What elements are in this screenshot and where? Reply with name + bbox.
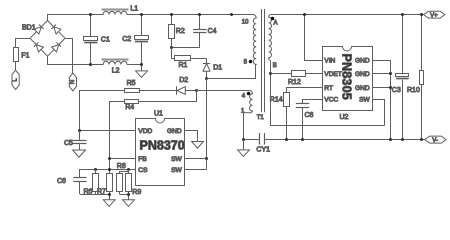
resistor R10 <box>420 15 424 140</box>
BD1 diode bottom-right <box>52 42 62 52</box>
wire: C6/R6 ground link <box>80 194 109 196</box>
node: GND pin3 junction <box>389 86 392 89</box>
svg-text:VCC: VCC <box>324 97 338 104</box>
BD1 diode bottom-left <box>34 42 44 52</box>
resistor R8 <box>117 171 129 195</box>
wire: bridge bottom vertex to negative rail <box>48 57 104 65</box>
wire: RT row to R14 <box>287 88 323 93</box>
BD1 diode top-right <box>51 25 61 35</box>
resistor R2 <box>169 15 175 48</box>
svg-text:4: 4 <box>242 94 246 100</box>
svg-text:B: B <box>273 63 277 69</box>
capacitor CY1 <box>244 133 287 145</box>
wire: VIN drop from top rail <box>305 15 323 61</box>
ground: R8 R9 ground symbol <box>123 200 135 207</box>
wire: V- rail <box>286 139 425 141</box>
capacitor C6 <box>73 178 86 195</box>
node: C1 top junction <box>89 13 92 16</box>
svg-text:SW: SW <box>171 167 182 174</box>
svg-text:V-: V- <box>432 138 438 144</box>
svg-text:GND: GND <box>355 85 370 92</box>
svg-text:U2: U2 <box>340 114 349 121</box>
node: pin B / R12 junction <box>269 72 272 75</box>
svg-text:R2: R2 <box>176 28 185 35</box>
svg-text:A: A <box>274 20 278 26</box>
ground: U1 GND symbol <box>192 142 204 149</box>
resistor R6 <box>93 169 99 194</box>
phase dot pin A <box>271 17 275 21</box>
wire: U1 VDD rail <box>79 130 136 132</box>
wire: fuse to L terminal <box>15 62 17 70</box>
svg-text:RT: RT <box>324 85 333 92</box>
svg-text:C4: C4 <box>208 28 217 35</box>
wire: R5 to D2 cathode <box>139 90 177 92</box>
wire: AC top bus from bridge to L1 <box>48 15 104 21</box>
wire: rail L2 to C2 ground node <box>127 64 142 66</box>
resistor R12 <box>271 71 322 77</box>
BD1 diode top-left <box>34 25 44 35</box>
svg-text:R1: R1 <box>179 62 188 69</box>
node: R10 top junction <box>420 13 423 16</box>
resistor R5 <box>125 89 140 93</box>
node: D2 anode junction <box>195 89 198 92</box>
resistor R4 <box>125 100 139 104</box>
wire: secondary output top rail to V+ <box>271 14 424 16</box>
wire: CS row to U1 <box>80 170 136 178</box>
svg-text:T1: T1 <box>257 115 265 121</box>
svg-text:VDD: VDD <box>138 128 152 135</box>
node: R6 top junction <box>94 168 97 171</box>
wire: switch node column to U1 SW pins <box>206 79 208 170</box>
svg-text:PN8370: PN8370 <box>140 139 185 153</box>
capacitor C5 <box>73 130 87 150</box>
terminal V- <box>425 136 446 144</box>
svg-text:1: 1 <box>241 109 245 115</box>
node: C1 bottom junction <box>89 63 92 66</box>
wire: bridge right vertex down to N terminal (crosses rail) <box>66 39 73 74</box>
node: CS column junction <box>108 168 111 171</box>
svg-text:C1: C1 <box>101 36 110 43</box>
svg-text:R9: R9 <box>132 189 141 196</box>
svg-text:D1: D1 <box>213 65 222 72</box>
wire: FB row to U1 <box>109 158 135 160</box>
node: top bus dot near pin 10 <box>230 13 233 16</box>
svg-text:C2: C2 <box>122 36 131 43</box>
node: snubber link junction <box>170 46 173 49</box>
node: D1 anode / switch node junction <box>205 77 208 80</box>
svg-text:CY1: CY1 <box>256 147 270 154</box>
node: C3 bottom junction <box>401 138 404 141</box>
svg-text:8: 8 <box>244 59 248 65</box>
terminal L <box>12 70 19 89</box>
inductor L1 winding <box>103 11 127 14</box>
node: GND bus on V- rail <box>389 138 392 141</box>
resistor R14 <box>284 93 290 140</box>
wire: switch node to transformer pin 8 <box>207 65 256 79</box>
svg-text:U1: U1 <box>154 111 163 118</box>
svg-text:BD1: BD1 <box>22 25 36 32</box>
wire: bridge left vertex to fuse <box>16 39 31 48</box>
wire: U1 SW pin 2 stub <box>185 169 207 171</box>
svg-text:VDET: VDET <box>324 71 342 78</box>
svg-text:C6: C6 <box>57 178 66 185</box>
svg-text:GND: GND <box>355 71 370 78</box>
wire: aux winding to D2 <box>196 90 249 92</box>
svg-text:GND: GND <box>355 58 370 65</box>
wire: branch from aux node down to R4 <box>139 91 197 102</box>
wire: U2 GND pin2 stub <box>372 73 390 75</box>
transformer T1 auxiliary winding (pins 4-1) <box>244 91 253 140</box>
svg-text:R8: R8 <box>117 163 126 170</box>
node: R7 ground junction <box>108 193 111 196</box>
wire: U2 SW pin to secondary B <box>373 100 385 126</box>
ground: primary ground symbol at CY1 <box>238 150 250 157</box>
node: SW pins junction <box>205 157 208 160</box>
diode D2 <box>177 86 197 94</box>
svg-text:R5: R5 <box>127 80 136 87</box>
diode D1 <box>203 63 210 79</box>
wire: VDD aux row from corner to R5 <box>80 91 125 131</box>
transformer T1 core <box>262 9 265 112</box>
svg-text:C5: C5 <box>64 140 73 147</box>
svg-text:R14: R14 <box>270 96 283 103</box>
node: GND pin2 junction <box>389 72 392 75</box>
node: C2 rail junction <box>140 63 143 66</box>
fuse F1 <box>14 48 19 62</box>
svg-text:R4: R4 <box>125 104 134 111</box>
node: R9 top junction <box>127 168 130 171</box>
node: CY1 primary ground junction <box>242 138 245 141</box>
svg-text:N: N <box>70 80 76 84</box>
svg-text:D2: D2 <box>179 77 188 84</box>
node: R14 column on V- rail <box>285 138 288 141</box>
svg-text:GND: GND <box>167 128 182 135</box>
capacitor C2 <box>135 15 149 71</box>
wire: U1 SW pin 1 stub <box>185 158 207 160</box>
transformer T1 secondary winding (pins A-B) <box>269 15 272 61</box>
node: VDD rail / C5 junction <box>78 129 81 132</box>
svg-text:VIN: VIN <box>324 58 335 65</box>
phase dot pin 8 <box>249 60 253 64</box>
wire: R4 to FB divider column <box>110 102 125 174</box>
node: C8 column on V- rail <box>301 138 304 141</box>
phase dot pin 4 <box>247 92 251 96</box>
ground: R6 R7 ground symbol <box>103 200 115 207</box>
capacitor C3 <box>396 15 409 140</box>
node: C3 top junction <box>401 13 404 16</box>
transformer T1 primary winding (pins 10-8) <box>253 15 257 65</box>
svg-text:C8: C8 <box>305 112 314 119</box>
ground: C5 ground symbol <box>73 150 86 157</box>
svg-text:10: 10 <box>242 20 249 26</box>
inductor L1 core bar <box>102 9 129 11</box>
capacitor C8 <box>296 104 309 140</box>
terminal N <box>69 73 76 91</box>
svg-text:F1: F1 <box>21 53 29 60</box>
svg-text:CS: CS <box>138 167 148 174</box>
ground: primary filter ground <box>136 71 148 78</box>
inductor L2 core bar <box>102 59 129 61</box>
svg-text:L2: L2 <box>112 67 120 74</box>
wire: drop to primary ground <box>243 140 245 150</box>
wire: U2 GND bus <box>373 61 391 140</box>
svg-text:SW: SW <box>171 156 182 163</box>
wire: snubber RC bottom link <box>171 47 200 49</box>
wire: top bus L1 to transformer <box>127 14 253 16</box>
IC U2 PN8305 body <box>323 47 373 111</box>
node: VIN junction on top rail <box>303 13 306 16</box>
svg-text:L1: L1 <box>130 6 138 13</box>
capacitor C4 <box>193 15 206 48</box>
resistor R1 <box>171 56 206 61</box>
svg-text:C3: C3 <box>392 87 401 94</box>
svg-text:R12: R12 <box>288 79 301 86</box>
wire: secondary pin B column <box>271 61 385 126</box>
inductor L2 winding <box>103 61 127 64</box>
svg-text:FB: FB <box>138 156 147 163</box>
capacitor C1 <box>84 15 98 65</box>
wire: U1 GND to ground <box>185 131 198 142</box>
svg-text:V+: V+ <box>430 13 438 19</box>
node: R10 bottom junction <box>420 138 423 141</box>
node: FB junction <box>108 157 111 160</box>
wire: VCC row to C8 <box>303 100 323 104</box>
svg-text:R10: R10 <box>407 87 420 94</box>
node: R2 top junction <box>170 13 173 16</box>
node: C4 top junction <box>198 13 201 16</box>
bridge rectifier BD1 diamond <box>30 21 65 57</box>
wire: U2 GND pin3 stub <box>372 87 390 89</box>
resistor R9 <box>126 169 132 199</box>
IC U1 PN8370 body <box>136 119 185 186</box>
terminal V+ <box>424 11 445 19</box>
wire: link down to R1 <box>171 47 173 58</box>
wire: R1 to D1 cathode <box>206 58 208 63</box>
node: R9 ground junction <box>127 193 130 196</box>
node: C2 top junction <box>140 13 143 16</box>
resistor R7 <box>107 174 113 200</box>
svg-text:SW: SW <box>359 97 370 104</box>
